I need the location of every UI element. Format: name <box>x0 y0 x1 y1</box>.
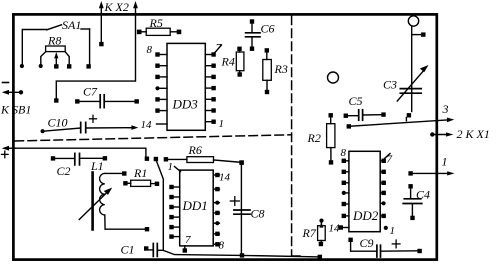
hole circle top right <box>408 16 418 26</box>
DD2 right pins <box>380 159 386 218</box>
svg-text:SA1: SA1 <box>62 18 81 32</box>
svg-text:DD1: DD1 <box>182 198 208 213</box>
capacitor C1 <box>121 243 164 257</box>
IC DD1 <box>180 170 214 246</box>
wire to output 1 <box>408 171 454 175</box>
DD1 pin 7 stub <box>183 246 187 253</box>
DD3 left pins <box>155 52 167 113</box>
capacitor C5 <box>344 94 386 120</box>
capacitor C7 <box>75 85 139 108</box>
pin label 7 DD3 <box>215 42 222 54</box>
capacitor C10 polarized <box>41 115 139 133</box>
svg-text:14: 14 <box>219 172 231 184</box>
hole circle mid right <box>328 72 339 83</box>
svg-text:C6: C6 <box>261 22 275 36</box>
capacitor C6 <box>246 19 275 51</box>
svg-text:14: 14 <box>329 223 341 235</box>
svg-text:C5: C5 <box>349 94 363 108</box>
svg-text:7: 7 <box>387 154 393 166</box>
svg-text:C8: C8 <box>251 207 265 221</box>
svg-text:1: 1 <box>442 155 448 169</box>
node K X2 arrow 1 <box>99 1 104 46</box>
capacitor C4 <box>403 184 430 220</box>
wire K X2 arrow 2 <box>54 1 138 103</box>
DD2 pin 14 lead <box>339 225 349 229</box>
DD3 right pins <box>205 52 215 124</box>
board outline frame <box>13 14 436 259</box>
potentiometer R8 <box>39 34 72 69</box>
resistor R2 <box>307 113 335 164</box>
svg-text:K X2: K X2 <box>104 0 129 14</box>
svg-text:7: 7 <box>185 234 191 246</box>
DD2 left pins <box>342 159 349 218</box>
DD2 pin 1 dot <box>384 226 388 230</box>
IC DD2 <box>349 151 380 231</box>
capacitor C2 <box>51 153 107 178</box>
DD1 left pins <box>169 185 179 239</box>
svg-text:R2: R2 <box>307 131 321 145</box>
svg-text:C1: C1 <box>121 243 135 257</box>
node rail pad <box>318 255 322 259</box>
node pad B <box>154 157 158 161</box>
inductor L1 variable <box>79 159 149 231</box>
svg-text:1: 1 <box>219 118 225 130</box>
DD3 pin 14 lead <box>157 123 168 125</box>
node plus supply arrow <box>2 146 15 151</box>
resistor R1 <box>123 166 159 186</box>
dashed divider vertical <box>291 16 293 256</box>
capacitor C3 variable <box>383 27 429 118</box>
dashed divider horizontal <box>15 135 291 141</box>
svg-text:14: 14 <box>141 119 153 131</box>
IC DD3 <box>167 43 205 130</box>
node pad C <box>164 157 168 161</box>
svg-text:DD2: DD2 <box>352 208 379 223</box>
svg-text:C7: C7 <box>83 85 98 99</box>
svg-text:R1: R1 <box>133 166 147 180</box>
svg-text:8: 8 <box>341 147 347 159</box>
svg-text:8: 8 <box>219 240 225 252</box>
svg-text:C9: C9 <box>360 236 374 250</box>
resistor R4 <box>221 47 244 77</box>
svg-text:R6: R6 <box>188 143 202 157</box>
node pad A <box>145 157 149 161</box>
minus polarity mark <box>3 82 9 84</box>
node 2 K X1 <box>430 132 453 136</box>
svg-text:1: 1 <box>168 161 174 173</box>
svg-text:C10: C10 <box>48 116 68 130</box>
resistor R3 <box>263 48 288 94</box>
svg-text:3: 3 <box>442 102 449 116</box>
svg-text:8: 8 <box>147 44 153 56</box>
resistor R6 <box>168 143 239 163</box>
wire to output 3 <box>347 118 455 129</box>
svg-text:1: 1 <box>390 225 396 237</box>
svg-text:DD3: DD3 <box>172 97 199 112</box>
plus polarity mark <box>2 151 9 158</box>
svg-text:R3: R3 <box>274 62 288 76</box>
wire pad B to ground rail <box>156 160 320 257</box>
resistor R5 <box>137 16 181 35</box>
DD1 right pins <box>213 173 219 247</box>
pin label 7 DD2 <box>385 154 393 166</box>
capacitor C8 polarized <box>230 160 264 257</box>
svg-text:7: 7 <box>216 42 222 54</box>
capacitor C9 polarized <box>348 236 421 257</box>
pin label 1 DD1 <box>168 161 181 173</box>
svg-text:2 K X1: 2 K X1 <box>457 127 490 141</box>
wire supply rail to pad row <box>15 148 146 156</box>
svg-text:C3: C3 <box>383 78 397 92</box>
switch SA1 <box>20 25 91 69</box>
svg-text:R7: R7 <box>302 226 317 240</box>
svg-text:C4: C4 <box>416 188 430 202</box>
node K SB1 arrow <box>2 90 23 95</box>
svg-text:L1: L1 <box>90 159 104 173</box>
wire rail left stub <box>292 255 300 257</box>
variable resistor R7 <box>302 219 326 247</box>
svg-text:K SB1: K SB1 <box>0 103 31 117</box>
svg-text:C2: C2 <box>57 164 71 178</box>
svg-text:R4: R4 <box>221 55 235 69</box>
